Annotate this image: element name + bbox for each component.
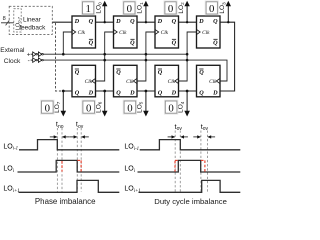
flip-flop FF5 (bottom row, rotated): [72, 65, 96, 97]
flip-flop FF3 (top row): [155, 16, 179, 48]
marker dashed line t_ov2 left (right diagram): [200, 131, 202, 193]
svg-text:Clock: Clock: [4, 58, 21, 65]
svg-text:LOi-1: LOi-1: [124, 144, 139, 152]
svg-text:0: 0: [209, 3, 214, 15]
svg-text:Clk: Clk: [85, 79, 93, 85]
flip-flop FF2 (top row): [114, 16, 138, 48]
svg-text:Linear: Linear: [23, 16, 42, 23]
inverter U3: [33, 58, 36, 63]
wire bus input to linear feedback: [1, 22, 14, 24]
svg-text:Clk: Clk: [161, 30, 169, 36]
svg-text:tov: tov: [76, 120, 84, 130]
svg-text:Clk: Clk: [119, 30, 127, 36]
svg-text:Q: Q: [130, 18, 135, 25]
svg-text:Q: Q: [199, 89, 204, 96]
svg-text:1: 1: [85, 3, 90, 15]
svg-text:D: D: [88, 89, 94, 96]
node LO0-7 input box: [14, 9, 21, 32]
svg-text:Q: Q: [158, 69, 163, 76]
state value box FF5 = 0: [164, 100, 177, 114]
svg-text:tov: tov: [201, 122, 209, 132]
wire FF3 Q to FF4 D: [179, 21, 197, 23]
marker dashed line t_ov2 right (right diagram): [207, 131, 209, 193]
svg-text:D: D: [129, 89, 135, 96]
wire waveform LOi+1 (left): [19, 180, 120, 192]
marker dashed line t_ov1 right (right diagram): [179, 131, 181, 193]
svg-text:Clk: Clk: [126, 79, 134, 85]
svg-text:Q: Q: [172, 18, 177, 25]
marker red ideal top stub (left): [77, 159, 81, 161]
svg-text:Q: Q: [75, 89, 80, 96]
svg-text:LOi+1: LOi+1: [124, 186, 140, 194]
svg-text:tno: tno: [56, 120, 64, 130]
marker dashed line t_ov1 left (right diagram): [174, 131, 176, 193]
marker red ideal top stub fall (right): [201, 159, 205, 161]
svg-text:Q: Q: [213, 40, 218, 47]
linear feedback block U9: [9, 6, 52, 34]
marker red ideal rise LOi (left): [61, 161, 63, 172]
measure arrows t_no: [50, 136, 57, 138]
state value box FF8 = 0: [41, 100, 54, 114]
svg-text:D: D: [157, 18, 163, 25]
svg-text:D: D: [171, 89, 177, 96]
wire FF2 Q to FF3 D: [137, 21, 155, 23]
svg-text:0: 0: [127, 3, 132, 15]
svg-text:LO7: LO7: [54, 101, 61, 113]
svg-text:LO2: LO2: [178, 2, 185, 14]
state value box FF3 = 0: [164, 1, 177, 15]
wire clock minus input: [31, 59, 33, 61]
flip-flop FF8 (bottom row, rotated): [197, 65, 221, 97]
svg-text:External: External: [0, 47, 25, 54]
wire FF8 Q to feedback node: [63, 90, 72, 92]
wire clk+ rail: [43, 53, 187, 55]
svg-text:0: 0: [168, 102, 173, 114]
svg-text:Q: Q: [89, 18, 94, 25]
svg-text:Q: Q: [116, 69, 121, 76]
wire FF1 clk stub: [63, 32, 72, 54]
measure arrows t_ov2 (right): [193, 136, 200, 138]
svg-text:Q: Q: [172, 40, 177, 47]
svg-text:tov: tov: [175, 122, 183, 132]
wire FF6 Q to FF7 D: [179, 90, 197, 92]
marker red ideal top stub rise (right): [175, 159, 178, 161]
wire FF4 Q to FF5 D (wrap around): [220, 22, 235, 91]
measure arrows t_ov1 (right): [168, 136, 175, 138]
svg-text:LOi: LOi: [124, 166, 135, 174]
svg-text:LO6: LO6: [95, 101, 102, 113]
svg-text:Phase imbalance: Phase imbalance: [35, 197, 96, 206]
svg-text:0: 0: [45, 102, 50, 114]
wire FF1 Q to FF2 D: [96, 21, 114, 23]
svg-text:D: D: [115, 18, 121, 25]
svg-text:D: D: [198, 18, 204, 25]
svg-text:LO0: LO0: [96, 2, 103, 14]
marker dashed line t_no left: [56, 128, 58, 192]
svg-text:D: D: [74, 18, 80, 25]
marker dashed line t_no right: [61, 128, 63, 192]
node LO1 output arrow: [145, 6, 147, 23]
wire waveform LOi (right): [138, 160, 241, 172]
inverter U2: [38, 52, 41, 57]
svg-text:-: -: [28, 58, 30, 65]
wire dashed feedback return path: [56, 23, 64, 91]
wire FF8 Q to FF9 D: [96, 90, 114, 92]
flip-flop FF4 (top row): [197, 16, 221, 48]
wire feedback output to FF1 D: [52, 21, 72, 23]
svg-text:0: 0: [168, 3, 173, 15]
svg-text:Q: Q: [213, 18, 218, 25]
wire FF4/FF7 clk stub: [179, 32, 197, 81]
svg-text:Q: Q: [130, 40, 135, 47]
svg-text:Q: Q: [89, 40, 94, 47]
svg-text:0: 0: [86, 102, 91, 114]
wire FF7 Q to FF8 D: [137, 90, 155, 92]
inverter U1: [33, 52, 36, 57]
node LO3 output arrow: [227, 6, 229, 23]
wire waveform LOi (left): [18, 160, 120, 172]
svg-text:8: 8: [3, 16, 6, 22]
state value box FF2 = 0: [123, 1, 136, 15]
svg-text:LO4: LO4: [178, 101, 185, 113]
bus width slash: [6, 20, 10, 25]
wire waveform LOi+1 (right): [139, 180, 241, 192]
svg-text:feedback: feedback: [19, 25, 46, 32]
marker dashed line t_ov left: [76, 128, 78, 192]
node LO2 output arrow: [186, 6, 188, 23]
wire waveform LOi-1 (left): [19, 140, 119, 150]
svg-text:LO3: LO3: [219, 2, 226, 14]
marker red ideal fall LOi (left): [80, 160, 82, 171]
svg-text:LO5: LO5: [137, 101, 144, 113]
marker red ideal fall LOi (right): [204, 160, 206, 171]
flip-flop FF6 (bottom row, rotated): [114, 65, 138, 97]
node LO0 output arrow: [104, 6, 106, 23]
flip-flop FF1 (top row): [72, 16, 96, 48]
node LO7 output arrow: [62, 91, 64, 112]
wire FF3/FF6 clk stub: [137, 32, 155, 81]
state value box FF7 = 0: [82, 100, 95, 114]
wire clock plus input: [31, 53, 33, 55]
wire FF2/FF5 clk stub: [96, 32, 114, 81]
svg-text:Q: Q: [199, 69, 204, 76]
node LO4 output arrow: [186, 91, 188, 112]
state value box FF1 = 1: [82, 1, 95, 15]
state value box FF6 = 0: [123, 100, 136, 114]
svg-text:Q: Q: [158, 89, 163, 96]
state value box FF4 = 0: [205, 1, 218, 15]
wire clk- rail: [43, 60, 227, 81]
svg-text:LOi-1: LOi-1: [3, 143, 18, 151]
marker red ideal rise LOi (right): [174, 161, 176, 172]
svg-text:D: D: [212, 89, 218, 96]
wire waveform LOi-1 (right): [140, 140, 241, 150]
inverter U4: [38, 58, 41, 63]
svg-text:Clk: Clk: [202, 30, 210, 36]
node LO6 output arrow: [104, 91, 106, 112]
node LO5 output arrow: [145, 91, 147, 112]
svg-text:Clk: Clk: [209, 79, 217, 85]
svg-text:Clk: Clk: [168, 79, 176, 85]
svg-text:LO1: LO1: [137, 2, 144, 14]
svg-text:Clk: Clk: [78, 30, 86, 36]
measure arrows t_ov (left): [70, 136, 77, 138]
svg-text:LOi: LOi: [3, 165, 14, 173]
svg-text:Duty cycle imbalance: Duty cycle imbalance: [154, 197, 227, 206]
flip-flop FF7 (bottom row, rotated): [155, 65, 179, 97]
svg-text:0: 0: [127, 102, 132, 114]
svg-text:Q: Q: [116, 89, 121, 96]
svg-text:LOi+1: LOi+1: [3, 186, 19, 194]
svg-text:Q: Q: [75, 69, 80, 76]
marker dashed line t_ov right: [80, 128, 82, 192]
